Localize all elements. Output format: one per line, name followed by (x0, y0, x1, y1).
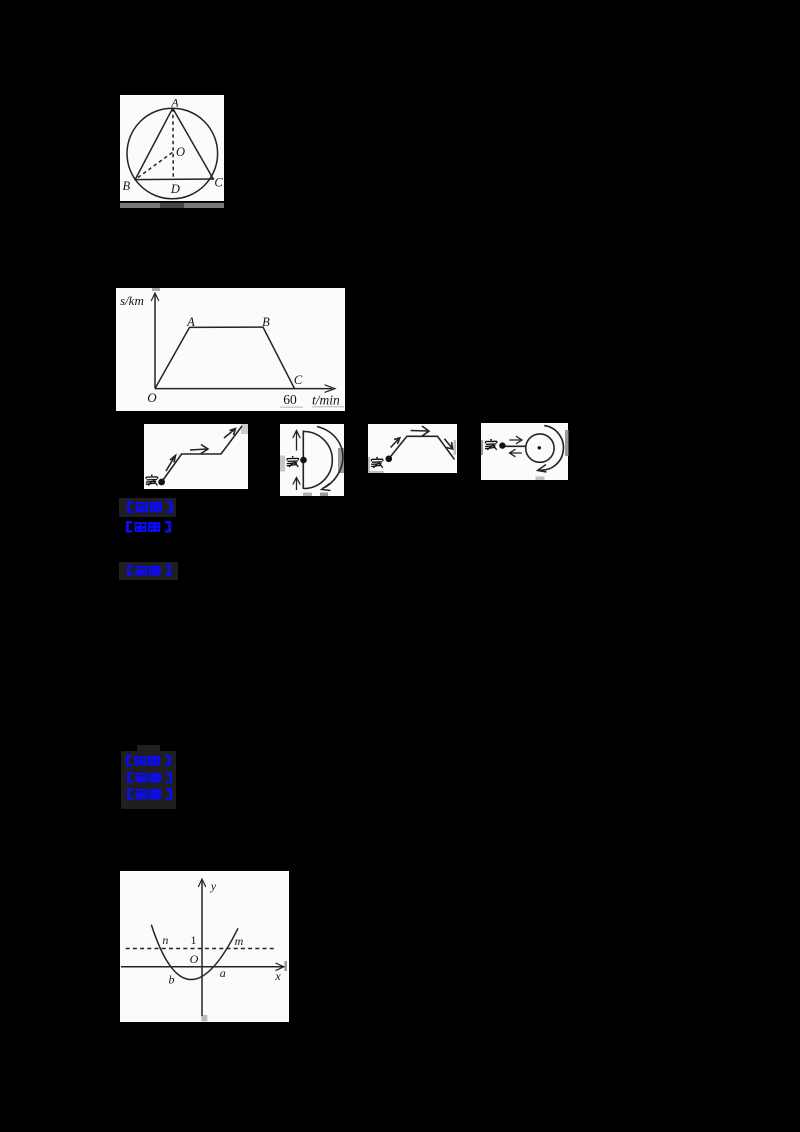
svg-text:C: C (294, 373, 303, 387)
svg-text:m: m (235, 934, 244, 948)
dashed line y=1 (126, 948, 276, 950)
option box B (280, 424, 344, 496)
svg-text:t/min: t/min (312, 393, 340, 408)
svg-text:60: 60 (283, 392, 297, 407)
caption group 2 line 1 (124, 755, 173, 766)
gray patches (481, 440, 483, 455)
arrow left (509, 449, 521, 457)
trapezoid OABC (155, 327, 295, 389)
y axis (154, 294, 156, 389)
arrow right (509, 436, 522, 444)
svg-text:O: O (147, 390, 157, 405)
svg-text:C: C (214, 176, 223, 190)
x axis (155, 388, 332, 390)
faint scan underlines (280, 407, 303, 408)
gray marks (285, 961, 288, 971)
arrow up-right 1 (166, 456, 176, 472)
svg-text:a: a (220, 966, 226, 980)
caption group 1 backdrop a (119, 498, 176, 518)
option box C (368, 424, 457, 473)
svg-text:B: B (262, 315, 270, 329)
caption group 2 line 2 (125, 772, 174, 783)
caption group 1 line 1 (125, 501, 175, 513)
center dot (537, 446, 540, 449)
gray edge patches (280, 456, 285, 472)
start dot (158, 479, 165, 486)
triangle ABC (134, 108, 214, 179)
svg-text:D: D (170, 182, 180, 196)
parabola (151, 925, 238, 980)
route polyline (162, 426, 242, 482)
x axis (121, 966, 283, 968)
caption group 2 panel (121, 751, 177, 810)
circle O (127, 108, 218, 199)
option box D (481, 423, 569, 480)
caption group 1 backdrop b (119, 562, 178, 580)
svg-text:s/km: s/km (120, 293, 144, 308)
svg-text:x: x (274, 969, 281, 983)
figure 3: parabola graph (120, 871, 289, 1022)
y axis (201, 880, 203, 1017)
家 label (146, 475, 158, 486)
gray patches (454, 440, 457, 455)
arrow up-right 2 (224, 429, 236, 439)
figure 1: circle with inscribed triangle (120, 95, 224, 201)
route polyline (389, 436, 455, 459)
start dot (300, 457, 307, 464)
blue caption symbol defs (0, 0, 1, 1)
gray nub above fig2 y-axis (152, 288, 160, 291)
arrow up-right (391, 438, 400, 448)
D-shape arc (304, 432, 333, 489)
家 label (287, 456, 299, 467)
svg-text:A: A (186, 315, 195, 329)
svg-text:b: b (169, 973, 175, 987)
up arrow bottom (293, 478, 300, 491)
svg-text:B: B (122, 179, 130, 193)
svg-text:O: O (190, 952, 199, 966)
start dot (386, 456, 393, 463)
arrow right (411, 426, 429, 436)
D-shape chord (302, 431, 304, 490)
dashed altitude AD (172, 108, 174, 179)
家 label (371, 457, 383, 468)
svg-text:y: y (210, 879, 217, 893)
gray scan strip under figure 1 (120, 203, 224, 208)
家 label (485, 439, 497, 450)
caption group 2 tab (137, 745, 160, 751)
start dot (499, 442, 505, 448)
svg-text:1: 1 (191, 933, 197, 947)
arrow right (190, 445, 208, 454)
option box A (144, 424, 248, 489)
line home to circle (504, 445, 525, 447)
figure 2: s/km vs t/min trapezoid graph (116, 288, 345, 411)
svg-text:O: O (176, 145, 185, 159)
up arrow top (293, 431, 300, 451)
dashed radius OB (136, 153, 173, 180)
circle track (525, 434, 553, 462)
caption group 1 line 2 (124, 521, 173, 533)
caption group 1 line 3 (125, 565, 173, 576)
svg-text:n: n (162, 933, 168, 947)
gray corner patch (241, 424, 248, 434)
caption group 2 line 3 (125, 788, 174, 800)
outer arc arrow (539, 426, 563, 471)
black edge line under figure 1 (120, 202, 224, 204)
arrow down-right (444, 439, 452, 449)
outer return arrow arc (317, 427, 343, 489)
svg-text:A: A (170, 98, 179, 110)
